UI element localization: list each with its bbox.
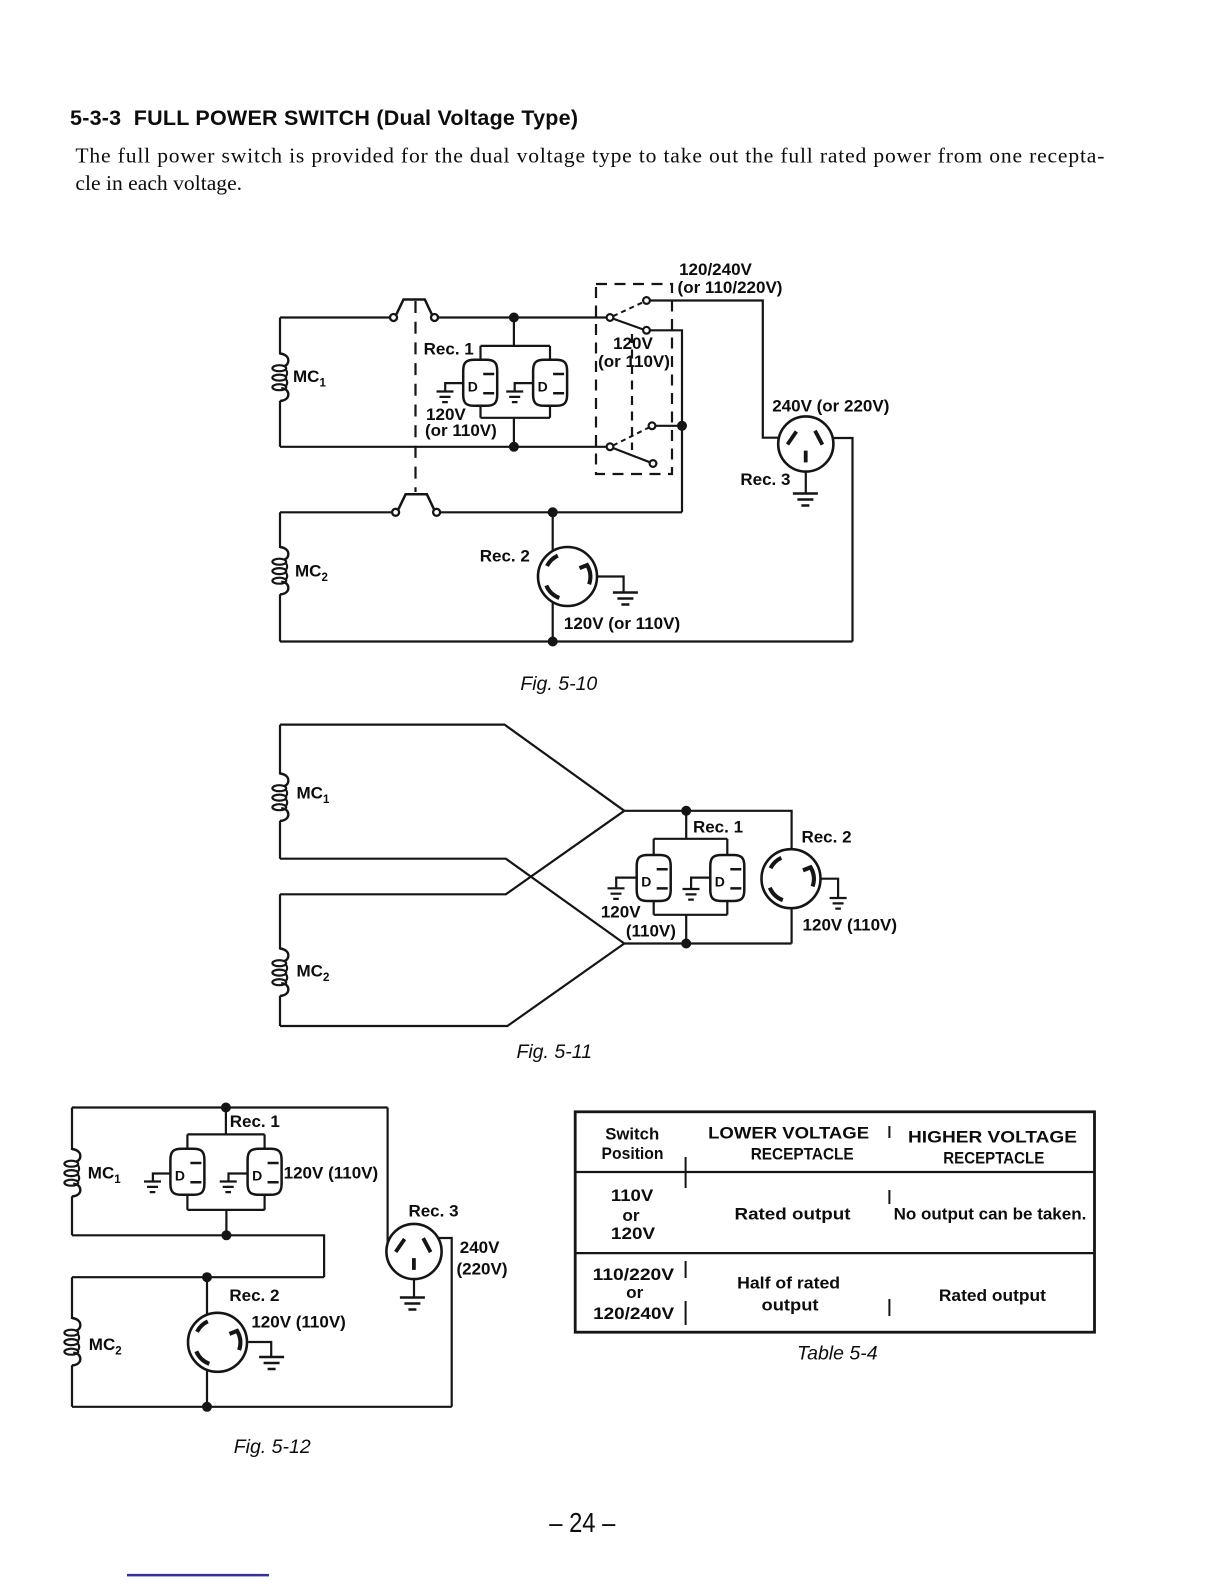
svg-text:No output can be taken.: No output can be taken. <box>894 1204 1087 1223</box>
ground of Rec.1 right outlet <box>691 878 710 889</box>
receptacle Rec.1 left outlet <box>170 1149 204 1195</box>
breaker contacts MC1 (linked pair upper) <box>390 300 438 322</box>
switch S1 blade dashed to upper throw <box>613 302 644 316</box>
svg-text:110/220V: 110/220V <box>593 1265 675 1284</box>
switch S1 lower throw <box>643 327 650 334</box>
svg-text:120V (110V): 120V (110V) <box>251 1313 346 1332</box>
svg-text:Rec. 1: Rec. 1 <box>424 339 474 358</box>
wire: MC1 bottom with diagonal crossing <box>280 859 624 944</box>
node: junction top feeding Rec.1 <box>509 313 519 323</box>
svg-text:RECEPTACLE: RECEPTACLE <box>943 1149 1044 1168</box>
wire: top rail to Rec.2 <box>624 811 791 944</box>
node: Rec.1 top junction <box>221 1103 231 1113</box>
svg-text:Rec. 2: Rec. 2 <box>480 547 530 566</box>
ground of Rec.1 left outlet <box>445 383 463 391</box>
svg-text:MC1: MC1 <box>297 784 330 807</box>
switch S1 upper throw <box>643 297 650 304</box>
switch S2 pole <box>607 443 614 450</box>
ground of Rec.2 <box>597 577 623 593</box>
svg-text:MC2: MC2 <box>89 1335 122 1358</box>
svg-text:Rated output: Rated output <box>939 1286 1046 1305</box>
svg-text:Rec. 3: Rec. 3 <box>740 470 790 489</box>
wire: MC2 top with diagonal crossing <box>280 811 624 895</box>
svg-text:HIGHER VOLTAGE: HIGHER VOLTAGE <box>908 1127 1077 1146</box>
svg-text:110V: 110V <box>611 1186 654 1205</box>
wire: top rail <box>72 1106 388 1108</box>
ground of Rec.3 <box>413 1279 415 1297</box>
wire: MC1 bottom <box>280 446 607 448</box>
coil MC2 <box>272 547 288 595</box>
wire: S2 upper throw to junction <box>655 425 682 427</box>
svg-text:RECEPTACLE: RECEPTACLE <box>751 1145 854 1164</box>
ground of Rec.3 <box>805 472 807 494</box>
svg-text:Position: Position <box>602 1144 664 1163</box>
wire: MC1 left vertical <box>279 725 281 859</box>
receptacle Rec.1 left outlet <box>637 855 671 901</box>
wire: bottom rail <box>72 1406 452 1408</box>
svg-text:(or 110V): (or 110V) <box>598 352 670 371</box>
svg-text:Rec. 2: Rec. 2 <box>229 1286 279 1305</box>
svg-text:240V (or 220V): 240V (or 220V) <box>772 397 889 416</box>
svg-text:Rec. 2: Rec. 2 <box>801 828 851 847</box>
svg-text:Rec. 1: Rec. 1 <box>693 818 743 837</box>
svg-text:(220V): (220V) <box>456 1259 507 1278</box>
svg-text:Rec. 3: Rec. 3 <box>408 1202 458 1221</box>
receptacle Rec.1 right outlet <box>710 855 744 901</box>
svg-text:120V (110V): 120V (110V) <box>284 1164 379 1183</box>
wire: MC2 left vertical <box>279 894 281 1026</box>
node: junction of throws <box>677 421 687 431</box>
svg-text:5-3-3 FULL POWER SWITCH (Dual: 5-3-3 FULL POWER SWITCH (Dual Voltage Ty… <box>70 106 578 130</box>
dashed selector switch box <box>596 284 672 474</box>
svg-text:or: or <box>626 1283 644 1302</box>
switch S2 upper throw <box>649 422 656 429</box>
receptacle Rec.3 (240V) <box>778 416 833 471</box>
svg-text:Fig. 5-12: Fig. 5-12 <box>234 1436 311 1458</box>
svg-text:cle in each voltage.: cle in each voltage. <box>75 171 242 195</box>
svg-text:MC2: MC2 <box>295 562 328 585</box>
node: Rec.2 top junction <box>548 507 558 517</box>
svg-text:120V: 120V <box>601 902 641 921</box>
svg-text:LOWER VOLTAGE: LOWER VOLTAGE <box>708 1123 869 1142</box>
coil MC2 <box>64 1318 80 1366</box>
wire: Rec.2 drop <box>206 1277 208 1407</box>
svg-text:(or 110/220V): (or 110/220V) <box>678 278 783 297</box>
svg-text:output: output <box>762 1296 819 1315</box>
wire: S1 lower throw down to MC2 top <box>650 330 682 512</box>
coil MC1 <box>64 1149 80 1197</box>
wire: Rec.1 bottom bracket <box>187 1194 264 1235</box>
table column rule segments col1/col2 <box>685 1157 687 1325</box>
wire: MC1 bottom rail with jog to MC2 <box>72 1235 324 1277</box>
table column rule segments col2/col3 <box>888 1126 890 1316</box>
switch S2 blade dashed to upper throw <box>613 428 649 446</box>
svg-text:or: or <box>622 1206 640 1225</box>
coil MC1 <box>272 774 288 822</box>
ground of Rec.2 <box>248 1342 271 1357</box>
node: junction bottom of Rec.1 <box>509 442 519 452</box>
wire: Rec.2 drop <box>552 512 554 641</box>
switch S2 blade solid to lower throw <box>613 448 650 462</box>
body paragraph <box>75 144 1104 196</box>
wire: MC2 loop top <box>280 511 682 513</box>
wire: MC1 left vertical <box>279 318 281 447</box>
wire: bottom rail <box>280 640 853 642</box>
coil MC1 <box>272 354 288 402</box>
svg-text:120V: 120V <box>613 334 653 353</box>
wire: bottom rail <box>624 942 791 944</box>
svg-text:Table 5-4: Table 5-4 <box>797 1343 878 1365</box>
coil MC2 <box>272 949 288 997</box>
receptacle Rec.1 right outlet <box>533 360 567 406</box>
wire: MC1 loop top <box>280 316 607 318</box>
wire: Rec.1 top bracket <box>654 811 728 854</box>
node: Rec.1 top junction <box>681 806 691 816</box>
svg-text:Switch: Switch <box>605 1125 659 1144</box>
svg-text:MC1: MC1 <box>293 367 326 390</box>
svg-text:120V (or 110V): 120V (or 110V) <box>564 614 680 633</box>
wire: S1 upper throw to Rec.3 <box>650 301 780 438</box>
node: Rec.2 bottom junction <box>548 637 558 647</box>
svg-text:Half of rated: Half of rated <box>737 1274 840 1293</box>
wire: MC2 left vertical <box>71 1277 73 1407</box>
wire: MC1 left vertical <box>71 1108 73 1236</box>
wire: Rec.1 bottom bracket <box>481 406 551 447</box>
wire: MC2 bottom with diagonal <box>280 944 624 1027</box>
ground of Rec.1 right outlet <box>515 383 533 391</box>
svg-text:(110V): (110V) <box>626 921 676 940</box>
switch S1 blade solid to lower throw <box>613 319 643 330</box>
svg-text:240V: 240V <box>460 1238 500 1257</box>
node: Rec.2 bottom junction <box>202 1402 212 1412</box>
svg-text:– 24 –: – 24 – <box>549 1507 616 1538</box>
receptacle Rec.2 (120V twist-lock) <box>538 547 597 606</box>
mechanical link dashed between breakers <box>414 301 416 492</box>
wire: Rec.1 top bracket <box>481 318 551 361</box>
ground of Rec.1 right outlet <box>229 1174 248 1182</box>
wire: Rec.1 bottom bracket <box>654 902 728 944</box>
table row rule 2 <box>575 1252 1094 1254</box>
node: Rec.1 bottom junction <box>221 1230 231 1240</box>
wire: Rec.3 right to bottom rail <box>436 1238 452 1407</box>
node: Rec.1 bottom junction <box>681 939 691 949</box>
wire: Rec.1 top bracket <box>187 1108 264 1150</box>
svg-text:Rated output: Rated output <box>735 1204 851 1223</box>
ground of Rec.1 left outlet <box>153 1174 171 1182</box>
wire: MC1 top with diagonal <box>280 725 624 811</box>
receptacle Rec.3 <box>386 1224 441 1279</box>
svg-text:120V: 120V <box>611 1224 656 1243</box>
receptacle Rec.2 twist-lock <box>762 849 821 908</box>
svg-text:MC2: MC2 <box>297 962 330 985</box>
table outer border <box>575 1112 1094 1332</box>
svg-text:MC1: MC1 <box>88 1164 121 1187</box>
svg-text:(or 110V): (or 110V) <box>425 421 497 440</box>
svg-text:Rec. 1: Rec. 1 <box>230 1112 280 1131</box>
svg-text:Fig. 5-10: Fig. 5-10 <box>520 673 597 695</box>
ground of Rec.2 <box>820 879 838 898</box>
node: Rec.2 top junction <box>202 1272 212 1282</box>
receptacle Rec.1 left outlet <box>463 360 497 406</box>
receptacle Rec.1 right outlet <box>248 1149 282 1195</box>
svg-text:Fig. 5-11: Fig. 5-11 <box>516 1041 592 1063</box>
mechanical link dashed between switches <box>631 334 633 450</box>
svg-text:120/240V: 120/240V <box>679 260 752 279</box>
heading 5-3-3 FULL POWER SWITCH <box>70 106 578 130</box>
breaker contacts MC2 (linked pair lower) <box>392 494 440 516</box>
receptacle Rec.2 twist-lock <box>188 1313 247 1372</box>
svg-text:120V (110V): 120V (110V) <box>803 916 898 935</box>
wire: MC2 left vertical <box>279 512 281 641</box>
switch S1 pole <box>607 314 614 321</box>
wire: Rec.3 right side down to bottom rail <box>831 438 853 642</box>
blue underline mark bottom-left <box>127 1574 269 1577</box>
switch S2 lower throw <box>650 460 657 467</box>
wire: MC2 top rail <box>72 1276 324 1278</box>
wire: right vertical to Rec.3 <box>387 1108 389 1247</box>
svg-text:120/240V: 120/240V <box>593 1304 675 1323</box>
ground of Rec.1 left outlet <box>616 878 637 888</box>
svg-text:The full power switch is provi: The full power switch is provided for th… <box>75 144 1104 168</box>
table row rule 1 <box>575 1171 1094 1173</box>
